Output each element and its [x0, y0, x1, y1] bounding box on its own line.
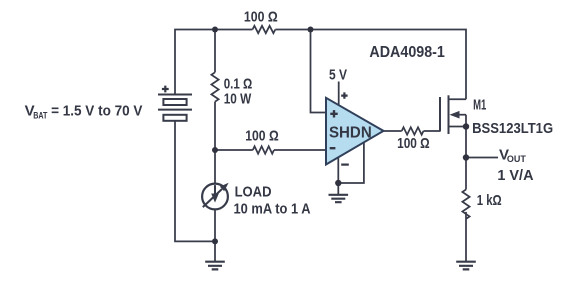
svg-text:= 1.5 V to 70 V: = 1.5 V to 70 V	[51, 103, 142, 120]
svg-text:BAT: BAT	[33, 110, 47, 121]
svg-text:BSS123LT1G: BSS123LT1G	[472, 120, 553, 137]
svg-text:1 kΩ: 1 kΩ	[477, 192, 502, 209]
svg-text:100 Ω: 100 Ω	[245, 128, 278, 145]
svg-text:100 Ω: 100 Ω	[244, 8, 278, 25]
svg-text:ADA4098-1: ADA4098-1	[369, 44, 445, 61]
svg-text:100 Ω: 100 Ω	[397, 135, 430, 152]
svg-text:LOAD: LOAD	[235, 184, 272, 201]
svg-text:10 mA to 1 A: 10 mA to 1 A	[234, 200, 311, 217]
svg-text:10 W: 10 W	[224, 90, 252, 107]
svg-text:1 V/A: 1 V/A	[497, 167, 533, 184]
svg-text:OUT: OUT	[507, 154, 526, 165]
svg-text:M1: M1	[473, 97, 486, 114]
svg-text:SHDN: SHDN	[329, 124, 372, 141]
svg-text:5 V: 5 V	[329, 67, 347, 84]
